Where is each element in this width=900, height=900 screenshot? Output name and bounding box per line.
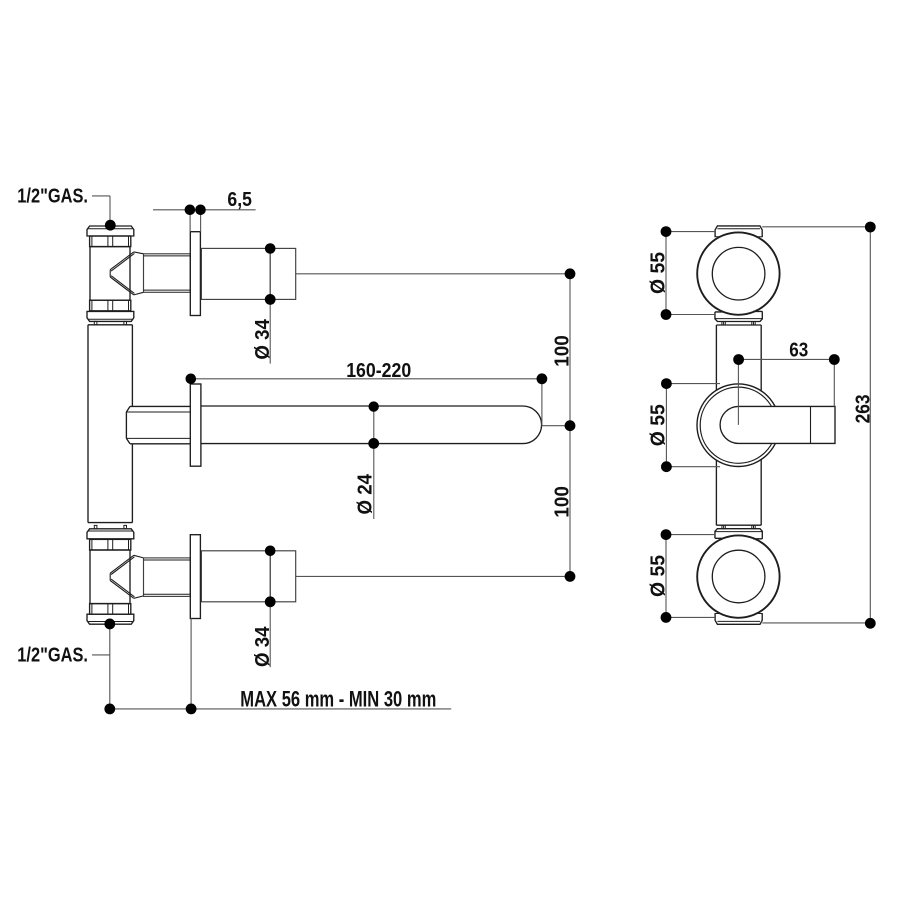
dimension Ø24 leader (373, 406, 375, 519)
top valve cap (front) (715, 226, 762, 237)
svg-text:Ø 55: Ø 55 (648, 555, 670, 597)
bottom valve outlet pipe (side) (144, 558, 191, 597)
trim sleeve top (side) (201, 248, 295, 299)
node dots Ø34 top (265, 243, 276, 254)
top valve bottom cap (side) (87, 311, 134, 321)
node dots 100 dimension (565, 268, 576, 279)
bottom valve top cap (side) (87, 529, 134, 539)
node dots Ø55 bottom (661, 529, 672, 540)
svg-text:6,5: 6,5 (227, 189, 252, 211)
svg-text:Ø 24: Ø 24 (354, 473, 376, 514)
top valve outlet pipe (side) (144, 254, 191, 292)
node dots Ø24 (369, 401, 379, 411)
dimension MAX-MIN line (110, 619, 451, 709)
dimension 263 vertical line (762, 227, 870, 624)
centerline stub top valve (296, 273, 570, 275)
svg-text:1/2"GAS.: 1/2"GAS. (17, 186, 88, 208)
riser pipe upper segment (front) (716, 325, 761, 391)
top handle outer circle (front) (697, 232, 779, 314)
dimension Ø55 middle (666, 384, 720, 467)
centerline stub bottom valve (296, 575, 570, 577)
dimension Ø55 top (666, 232, 715, 315)
trim sleeve bottom (side) (201, 551, 295, 602)
node dots Ø55 middle (661, 378, 672, 389)
top valve upper collar (side) (90, 236, 131, 247)
bottom handle outer circle (front) (697, 535, 779, 617)
top valve cap (side) (87, 226, 134, 236)
bottom valve upper collar (side) (90, 539, 131, 550)
dimension 63 line (738, 359, 834, 406)
node dots Ø34 bottom (265, 546, 276, 557)
svg-text:63: 63 (789, 340, 808, 362)
dimension Ø34 bottom leader (269, 602, 271, 667)
leader 1/2"GAS. bottom (92, 624, 110, 709)
bottom valve lower collar (side) (90, 604, 131, 615)
svg-text:MAX 56 mm - MIN 30 mm: MAX 56 mm - MIN 30 mm (240, 686, 436, 711)
spout tube capsule (front) (720, 406, 835, 443)
top handle inner circle (front) (712, 247, 765, 300)
spout tube (side) (201, 406, 542, 444)
spout escutcheon outer circle (front) (697, 384, 780, 467)
dimension 6,5 line (153, 210, 256, 232)
svg-text:Ø 34: Ø 34 (252, 626, 274, 667)
bottom valve body (side) (90, 550, 130, 604)
svg-text:1/2"GAS.: 1/2"GAS. (17, 644, 88, 666)
bottom valve bottom cap (side) (87, 614, 134, 624)
svg-text:Ø 55: Ø 55 (648, 404, 670, 446)
top valve tabs (front) (722, 322, 725, 326)
node dots 263 (865, 222, 876, 233)
wall flange plate bottom (side) (190, 535, 200, 619)
bottom handle inner circle (front) (712, 550, 765, 603)
bottom valve tee cone (side) (110, 555, 143, 598)
node dots 63 (733, 354, 744, 365)
node dots Ø55 top (661, 226, 672, 237)
top valve body (side) (90, 247, 130, 301)
leader 1/2"GAS. top (92, 196, 110, 225)
dimension 100/100 vertical line (569, 274, 571, 577)
svg-text:Ø 34: Ø 34 (252, 318, 274, 359)
svg-text:100: 100 (552, 486, 574, 518)
node dots 160-220 (186, 374, 197, 385)
bottom valve top collar (front) (715, 529, 762, 539)
svg-text:Ø 55: Ø 55 (648, 252, 670, 294)
leader 63 to spout centre (737, 359, 739, 425)
top valve bottom collar (front) (715, 311, 762, 321)
svg-text:263: 263 (853, 394, 875, 423)
dimension Ø55 bottom (666, 535, 715, 618)
node dot GAS top (105, 220, 116, 231)
spout boss on riser (side) (126, 406, 190, 443)
dimension Ø34 top leader (269, 249, 271, 364)
svg-text:160-220: 160-220 (346, 360, 411, 382)
node dots GAS bottom / MAX-MIN (104, 619, 115, 630)
spout wall flange plate (side) (190, 384, 201, 466)
top valve tabs (side) (94, 321, 97, 324)
bottom valve tabs (side) (94, 525, 97, 528)
wall flange plate top (side) (190, 232, 200, 316)
centerline stub spout (542, 425, 570, 427)
node dots 6,5 (185, 205, 196, 216)
svg-text:100: 100 (552, 335, 574, 367)
bottom valve bottom cap (front) (715, 614, 762, 625)
top valve tee cone (side) (110, 252, 143, 295)
spout escutcheon inner circle (front) (700, 387, 776, 463)
riser pipe lower segment (front) (716, 459, 761, 525)
riser pipe between valves (side) (88, 325, 132, 523)
top valve lower collar (side) (90, 300, 131, 311)
bottom valve tabs (front) (722, 525, 725, 529)
dimension 160-220 line (191, 379, 542, 426)
